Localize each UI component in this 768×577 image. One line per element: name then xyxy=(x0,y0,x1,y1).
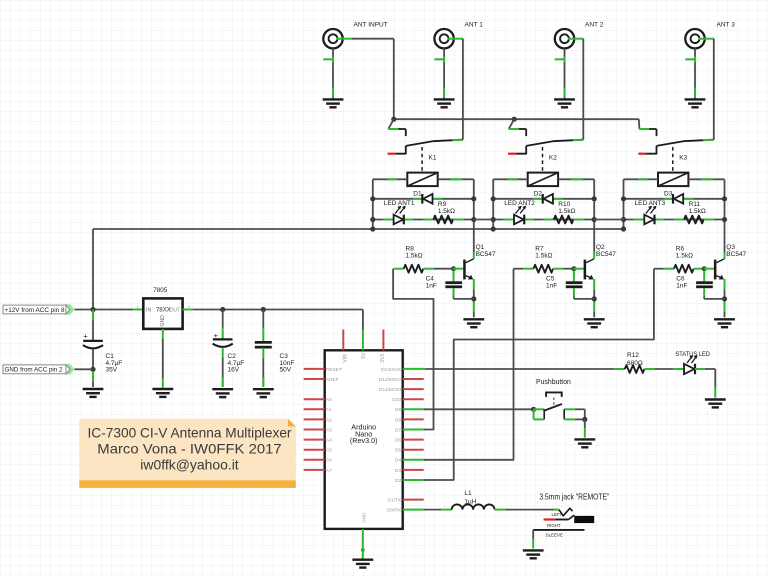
wire 5V rail xyxy=(183,309,193,311)
transistor Q3 xyxy=(704,268,714,270)
svg-text:GND: GND xyxy=(160,315,166,327)
node pushbutton to ground xyxy=(582,417,587,422)
wire emitter Q3 to ground xyxy=(724,279,726,289)
node K3 D row right xyxy=(722,196,727,201)
svg-text:D5: D5 xyxy=(395,448,401,454)
svg-text:50V: 50V xyxy=(280,367,292,374)
LED LED ANT3 xyxy=(644,215,654,225)
svg-text:2: 2 xyxy=(137,305,139,309)
svg-text:RIGHT: RIGHT xyxy=(547,523,561,528)
relay K1 switch xyxy=(388,119,394,129)
svg-text:L1: L1 xyxy=(464,490,472,497)
svg-text:D7: D7 xyxy=(395,427,401,433)
svg-text:3: 3 xyxy=(188,305,190,309)
pin A3 xyxy=(304,429,325,431)
wire K1 left rail xyxy=(372,179,374,229)
svg-text:D10: D10 xyxy=(392,397,401,403)
voltage regulator U1 7805 xyxy=(133,309,143,311)
svg-text:ANT 3: ANT 3 xyxy=(717,21,736,28)
svg-text:5V: 5V xyxy=(361,352,367,359)
diode D1 xyxy=(421,194,423,204)
svg-text:C1: C1 xyxy=(106,353,115,360)
wire C5 to emitter xyxy=(574,298,594,300)
relay K3 switch xyxy=(638,119,641,129)
node bus junction K2 xyxy=(512,117,517,122)
svg-text:BC547: BC547 xyxy=(476,251,496,258)
node bus junction K1 xyxy=(391,117,396,122)
ground Q1 xyxy=(463,318,484,320)
wire LED row K1 xyxy=(373,219,474,221)
svg-text:GND from ACC pin 2: GND from ACC pin 2 xyxy=(5,367,63,374)
relay K3 coil xyxy=(658,173,688,187)
ground C1 xyxy=(83,388,104,390)
svg-text:K2: K2 xyxy=(549,154,557,161)
wire D0/RX to L1 xyxy=(424,509,442,511)
relay K2 switch xyxy=(509,119,515,129)
wire ANT bus xyxy=(394,118,639,120)
node GND junction xyxy=(90,367,95,372)
node K1 LED row right xyxy=(471,217,476,222)
svg-text:35V: 35V xyxy=(106,367,118,374)
svg-text:SLEEVE: SLEEVE xyxy=(546,532,563,537)
node K2 LED row left xyxy=(491,217,496,222)
resistor R7 xyxy=(514,268,524,270)
svg-text:D8: D8 xyxy=(395,417,401,423)
pin A7 xyxy=(304,469,325,471)
wire +12V bottom rail xyxy=(93,228,624,230)
pin D13/SCK xyxy=(403,368,424,370)
ground ANT 1 xyxy=(434,98,455,100)
svg-text:D2: D2 xyxy=(534,190,543,197)
wire coil K2 left xyxy=(493,178,528,180)
ground Q2 xyxy=(584,318,605,320)
svg-text:Q2: Q2 xyxy=(596,244,605,251)
transistor Q2 xyxy=(574,268,584,270)
svg-text:R8: R8 xyxy=(406,245,415,252)
node K1 LED row left xyxy=(370,217,375,222)
node K3 D row left xyxy=(621,196,626,201)
node emitter junction Q1 xyxy=(471,296,476,301)
ground STATUS LED xyxy=(705,398,726,400)
svg-text:D1: D1 xyxy=(413,190,422,197)
node K2 D row left xyxy=(491,196,496,201)
svg-text:iw0ffk@yahoo.it: iw0ffk@yahoo.it xyxy=(140,458,239,473)
svg-text:C3: C3 xyxy=(280,353,289,360)
ground ANT INPUT xyxy=(323,98,344,100)
svg-text:680Ω: 680Ω xyxy=(627,360,643,367)
relay K2 coil xyxy=(528,173,558,187)
capacitor C3 xyxy=(262,310,264,328)
wire LED row K3 xyxy=(624,219,725,221)
wire LED row K2-K3 link xyxy=(594,219,623,221)
capacitor C1 xyxy=(92,310,94,320)
svg-text:ANT INPUT: ANT INPUT xyxy=(354,21,388,28)
svg-text:1.5kΩ: 1.5kΩ xyxy=(689,208,706,215)
pin D1/TX xyxy=(403,499,424,501)
ground ANT 2 xyxy=(554,98,575,100)
wire R6 to base xyxy=(703,268,705,270)
wire diode row K3 xyxy=(624,198,725,200)
svg-text:3.5mm jack "REMOTE": 3.5mm jack "REMOTE" xyxy=(539,492,609,501)
wire D2 to R6 xyxy=(424,269,654,480)
svg-text:A6: A6 xyxy=(326,458,332,464)
LED LED ANT1 xyxy=(394,215,404,225)
wire C1 to ground xyxy=(92,371,94,381)
node K2 D row right xyxy=(592,196,597,201)
pin GND xyxy=(362,529,364,560)
pin D7 xyxy=(403,429,424,431)
node K3 LED row left xyxy=(621,217,626,222)
diode D3 xyxy=(672,194,674,204)
Arduino Nano U2 xyxy=(325,350,403,529)
svg-text:3V3: 3V3 xyxy=(380,354,386,363)
pin D5 xyxy=(403,449,424,451)
node K1 D row right xyxy=(471,196,476,201)
ground regulator xyxy=(152,388,173,390)
svg-text:A1: A1 xyxy=(326,407,332,413)
wire D7 to R8 xyxy=(393,269,433,430)
wire ANT INPUT shield to ground xyxy=(332,48,334,99)
svg-text:R6: R6 xyxy=(676,245,685,252)
pin RESET xyxy=(304,368,325,370)
coax connector ANT 2 xyxy=(555,29,574,48)
pin A6 xyxy=(304,459,325,461)
svg-text:7805: 7805 xyxy=(153,287,168,294)
svg-text:ANT 2: ANT 2 xyxy=(585,21,604,28)
node pushbutton junction xyxy=(531,407,536,412)
svg-text:16V: 16V xyxy=(228,367,240,374)
wire coil K1 right xyxy=(438,178,474,180)
resistor R6 xyxy=(654,268,664,270)
node +12V rail K2 xyxy=(491,226,496,231)
node base junction Q2 xyxy=(571,266,576,271)
ground pushbutton xyxy=(574,438,595,440)
svg-text:A2: A2 xyxy=(326,417,332,423)
svg-text:C5: C5 xyxy=(546,275,555,282)
transistor Q1 xyxy=(454,268,464,270)
inductor L1 xyxy=(441,509,452,511)
wire R7 to base xyxy=(564,268,574,270)
svg-text:1.5kΩ: 1.5kΩ xyxy=(438,208,455,215)
wire ANT INPUT to bus xyxy=(352,38,394,40)
svg-text:1nF: 1nF xyxy=(676,282,687,289)
svg-text:+12V from ACC pin 8: +12V from ACC pin 8 xyxy=(5,307,65,314)
wire K2 left rail xyxy=(492,179,494,229)
wire diode row K2 xyxy=(493,198,594,200)
svg-text:GND: GND xyxy=(362,512,367,523)
wire K3 left rail xyxy=(623,179,625,229)
capacitor C6 xyxy=(703,271,705,281)
wire emitter Q2 to ground xyxy=(593,279,595,289)
wire K1 right rail xyxy=(473,179,475,252)
svg-text:LEFT: LEFT xyxy=(552,512,563,517)
svg-text:VIN: VIN xyxy=(342,354,348,363)
wire emitter Q1 to ground xyxy=(473,279,475,289)
node emitter junction Q2 xyxy=(592,296,597,301)
wire ANT 3 shield to ground xyxy=(694,48,696,99)
capacitor C2 xyxy=(222,310,224,328)
wire C4 to emitter xyxy=(454,298,474,300)
svg-text:C4: C4 xyxy=(426,275,435,282)
pin VIN xyxy=(342,330,344,351)
coax connector ANT INPUT xyxy=(323,29,342,48)
wire R8 to base xyxy=(434,268,454,270)
svg-text:D13/SCK: D13/SCK xyxy=(381,367,402,373)
pin D11/MOSI xyxy=(403,388,424,390)
svg-text:LED ANT3: LED ANT3 xyxy=(635,200,666,207)
node C2 junction xyxy=(220,307,225,312)
wire regulator GND to ground xyxy=(162,329,164,339)
svg-text:K1: K1 xyxy=(429,154,437,161)
resistor R9 xyxy=(423,219,433,221)
pin A5 xyxy=(304,449,325,451)
node K3 LED row right xyxy=(722,217,727,222)
svg-text:R11: R11 xyxy=(689,201,701,208)
relay K1 coil xyxy=(407,173,437,187)
svg-text:(Rev3.0): (Rev3.0) xyxy=(350,436,378,445)
svg-text:1nF: 1nF xyxy=(546,282,557,289)
diode D2 xyxy=(542,194,544,204)
LED STATUS LED xyxy=(673,368,684,370)
node emitter junction Q3 xyxy=(722,296,727,301)
node +12V rail K1 xyxy=(370,226,375,231)
ground ANT 3 xyxy=(685,98,706,100)
pin A4 xyxy=(304,439,325,441)
coax connector ANT 1 xyxy=(434,29,453,48)
node base junction Q3 xyxy=(702,266,707,271)
svg-text:AREF: AREF xyxy=(326,377,339,383)
svg-text:1.5kΩ: 1.5kΩ xyxy=(406,252,423,259)
wire C6 to emitter xyxy=(704,298,724,300)
wire D4 to R7 xyxy=(424,269,514,460)
wire coil K3 left xyxy=(624,178,659,180)
node +12V rail K3 xyxy=(621,226,626,231)
wire ANT2 down to K2 xyxy=(582,39,584,140)
capacitor C5 xyxy=(573,271,575,281)
svg-text:A4: A4 xyxy=(326,438,332,444)
svg-text:K3: K3 xyxy=(679,154,687,161)
pin D10 xyxy=(403,398,424,400)
svg-text:STATUS LED: STATUS LED xyxy=(675,351,710,358)
svg-text:LED ANT1: LED ANT1 xyxy=(384,200,415,207)
pin A1 xyxy=(304,408,325,410)
svg-text:D1/TX: D1/TX xyxy=(387,498,401,504)
svg-text:D6: D6 xyxy=(395,438,401,444)
svg-text:A3: A3 xyxy=(326,427,332,433)
pin AREF xyxy=(304,378,325,380)
pin D9 xyxy=(403,408,424,410)
wire LED to ground xyxy=(705,368,715,370)
resistor R8 xyxy=(393,268,403,270)
svg-text:A5: A5 xyxy=(326,448,332,454)
resistor R10 xyxy=(543,219,553,221)
wire D13 to R12 xyxy=(424,368,615,370)
svg-text:D12/MISO: D12/MISO xyxy=(379,377,402,383)
pin 5V xyxy=(362,330,364,351)
svg-text:D3: D3 xyxy=(664,190,673,197)
resistor R12 xyxy=(614,368,625,370)
wire ANT1 down to K1 xyxy=(462,39,464,140)
svg-text:LED ANT2: LED ANT2 xyxy=(504,200,535,207)
wire coil K3 right xyxy=(688,178,724,180)
svg-text:R10: R10 xyxy=(558,201,570,208)
label +12V from ACC pin 8 xyxy=(65,304,74,314)
svg-text:Q1: Q1 xyxy=(476,244,485,251)
wire K2 right rail xyxy=(593,179,595,252)
coax connector ANT 3 xyxy=(685,29,704,48)
svg-text:A0: A0 xyxy=(326,397,332,403)
pin D6 xyxy=(403,439,424,441)
wire LED row K1-K2 link xyxy=(474,219,493,221)
ground C3 xyxy=(253,388,274,390)
svg-text:RESET: RESET xyxy=(326,367,342,373)
svg-text:BC547: BC547 xyxy=(596,251,616,258)
svg-text:R9: R9 xyxy=(438,201,447,208)
capacitor C4 xyxy=(453,271,455,281)
wire coil K1 left xyxy=(373,178,408,180)
svg-text:C2: C2 xyxy=(228,353,237,360)
wire L1 to jack xyxy=(505,509,554,511)
wire +12V riser xyxy=(92,229,94,310)
wire R12 to LED xyxy=(655,368,673,370)
node +12V junction xyxy=(90,307,95,312)
svg-text:R7: R7 xyxy=(535,245,544,252)
wire D9 to pushbutton xyxy=(424,408,534,410)
svg-text:D11/MOSI: D11/MOSI xyxy=(379,387,401,393)
svg-text:Marco Vona - IW0FFK 2017: Marco Vona - IW0FFK 2017 xyxy=(97,442,281,457)
svg-text:A7: A7 xyxy=(326,468,332,474)
ground jack xyxy=(523,549,544,551)
pin A0 xyxy=(304,398,325,400)
svg-text:BC547: BC547 xyxy=(726,251,746,258)
LED LED ANT2 xyxy=(514,215,524,225)
wire +12V to regulator xyxy=(74,309,133,311)
svg-text:C6: C6 xyxy=(676,275,685,282)
pin A2 xyxy=(304,418,325,420)
svg-text:+: + xyxy=(83,332,88,341)
svg-text:1.5kΩ: 1.5kΩ xyxy=(676,252,693,259)
wire ANT3 down to K3 xyxy=(713,39,715,140)
pin D4 xyxy=(403,459,424,461)
wire diode row K1 xyxy=(373,198,474,200)
svg-text:1.5kΩ: 1.5kΩ xyxy=(558,208,575,215)
wire ANT 2 shield to ground xyxy=(564,48,566,99)
svg-text:1.5kΩ: 1.5kΩ xyxy=(535,252,552,259)
node C3 junction xyxy=(261,307,266,312)
wire GND label to junction xyxy=(74,368,93,370)
pin D3 xyxy=(403,469,424,471)
svg-text:1µH: 1µH xyxy=(464,498,476,505)
node K2 LED row right xyxy=(592,217,597,222)
node base junction Q1 xyxy=(451,266,456,271)
svg-text:D3: D3 xyxy=(395,468,401,474)
svg-text:Q3: Q3 xyxy=(726,244,735,251)
pin D0/RX xyxy=(403,509,424,511)
wire ANT 1 shield to ground xyxy=(443,48,445,99)
svg-text:IN: IN xyxy=(146,307,151,313)
svg-text:1nF: 1nF xyxy=(426,282,437,289)
svg-text:R12: R12 xyxy=(627,352,639,359)
svg-text:D4: D4 xyxy=(395,458,401,464)
node K1 D row left xyxy=(370,196,375,201)
ground C2 xyxy=(212,388,233,390)
wire coil K2 right xyxy=(558,178,594,180)
wire K3 right rail xyxy=(724,179,726,252)
pin D12/MISO xyxy=(403,378,424,380)
svg-text:OUT: OUT xyxy=(169,307,181,313)
note annotation xyxy=(79,419,295,488)
label GND from ACC pin 2 xyxy=(65,364,74,374)
pin D2 xyxy=(403,479,424,481)
svg-text:IC-7300 CI-V Antenna Multiplex: IC-7300 CI-V Antenna Multiplexer xyxy=(88,425,292,440)
wire LED row K2 xyxy=(493,219,594,221)
svg-text:D0/RX: D0/RX xyxy=(387,508,402,514)
resistor R11 xyxy=(674,219,684,221)
svg-text:D9: D9 xyxy=(395,407,401,413)
wire pushbutton to ground xyxy=(584,419,586,428)
pin 3V3 xyxy=(382,330,384,351)
svg-text:ANT 1: ANT 1 xyxy=(465,21,484,28)
wire jack sleeve to ground xyxy=(532,530,534,540)
svg-text:D2: D2 xyxy=(395,478,401,484)
ground Arduino xyxy=(352,559,373,561)
svg-text:Pushbutton: Pushbutton xyxy=(536,379,571,386)
ground Q3 xyxy=(714,318,735,320)
pin D8 xyxy=(403,418,424,420)
